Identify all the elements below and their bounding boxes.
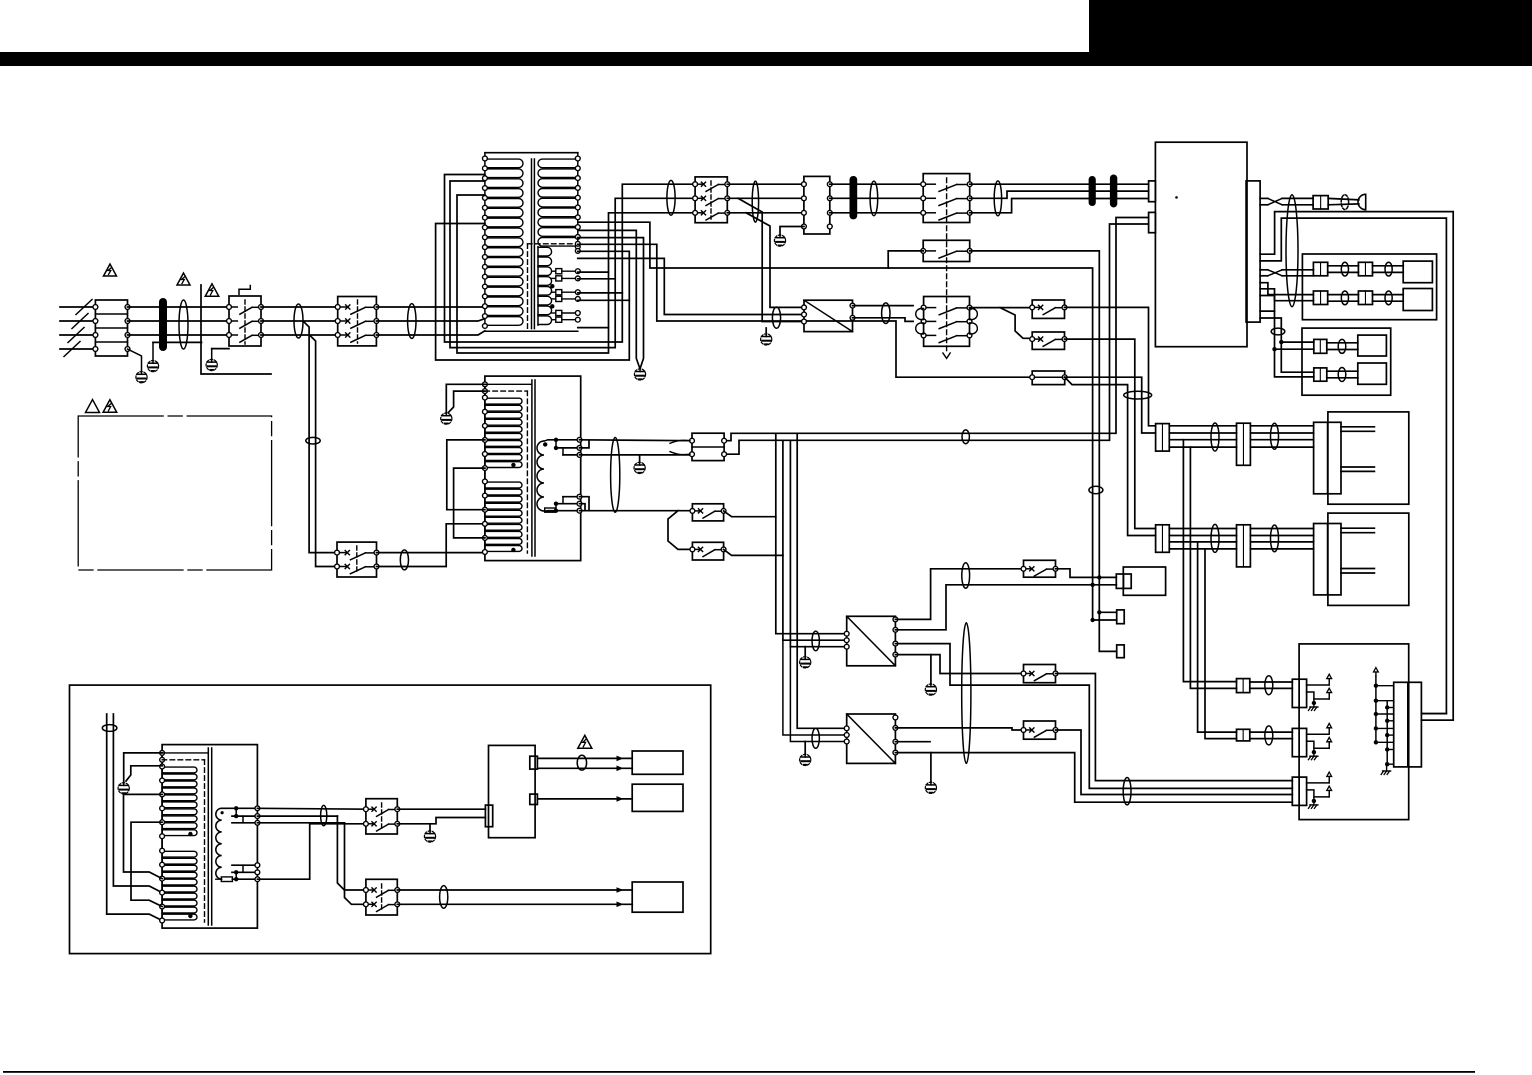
wire loop U1 <box>445 175 696 343</box>
wire L2 to ferrite <box>128 320 230 322</box>
wire branch to standby B <box>310 335 338 567</box>
relay S2 <box>335 297 378 346</box>
module plug P1 <box>1403 261 1432 283</box>
wire T2 sec top1 <box>544 440 580 441</box>
inset box <box>70 685 711 954</box>
polarity dot T2p2 <box>511 548 515 552</box>
wire CV1 in1 feed <box>776 433 847 633</box>
wire row2 out <box>1250 529 1313 549</box>
wire return loop inner <box>1260 218 1446 713</box>
wire fan chainA top <box>1281 341 1314 343</box>
wire row2 w2 <box>1169 535 1236 537</box>
converter CV2 <box>844 714 898 763</box>
wire J4 pair <box>1328 295 1359 302</box>
wire T1 tap e <box>578 327 609 329</box>
cable bundle marker tall <box>1286 195 1298 307</box>
relay S8 <box>690 542 726 560</box>
wire JP1 out b <box>1065 377 1156 535</box>
connector J5 <box>1358 291 1372 305</box>
relay S1 <box>227 296 264 346</box>
wire L3 to ferrite <box>128 334 230 336</box>
wire CV2 earth stub <box>804 742 806 755</box>
cable marker E31 <box>1271 525 1279 552</box>
transformer T3 box <box>162 745 257 929</box>
ground G8 <box>634 462 645 473</box>
cable marker E18 <box>882 303 890 324</box>
wire mains input L2 <box>60 320 95 322</box>
transformer T2 core <box>532 380 535 556</box>
ground G10 <box>800 754 811 765</box>
wire S4 to PCB 2 <box>970 191 1149 198</box>
wire S2 to T1 in3 <box>376 331 485 335</box>
wire inset vert pair A <box>107 714 162 921</box>
relay S6 <box>335 542 379 577</box>
wire S3 out1 <box>727 183 804 185</box>
arrow A1 <box>617 756 624 762</box>
connector J9 <box>1117 610 1125 624</box>
line filter FL1 <box>690 433 727 460</box>
transformer T2 primary winding <box>483 382 523 554</box>
wire earth stub 2 <box>128 349 142 372</box>
connector C1b <box>1237 423 1251 465</box>
M3 signal ladder B <box>1381 701 1394 775</box>
wire row1 w4 <box>1169 446 1236 448</box>
resistor R2 <box>221 877 232 882</box>
wire SW2 out1 <box>397 889 632 891</box>
wire row1 w2 <box>1169 432 1236 434</box>
wire S2 to T1 in1 <box>376 306 485 308</box>
wire T3 tap A <box>124 794 163 878</box>
connector J6 <box>1314 339 1327 353</box>
wire FL1 earth <box>639 455 641 462</box>
wire SXA out <box>1065 307 1156 425</box>
cable marker E24 <box>812 631 819 651</box>
cable marker E30 <box>1211 524 1219 552</box>
PCB edge connector <box>1246 181 1260 322</box>
wire JP1 out a <box>1065 377 1156 433</box>
wire CV0 out2 <box>853 318 914 322</box>
wire T3 sec top group <box>221 806 260 825</box>
wire loop U4 <box>436 224 630 361</box>
ground G12 <box>925 782 936 793</box>
cable marker E29 <box>1271 423 1279 449</box>
polarity dot T3b <box>188 914 192 918</box>
footer rule <box>3 1071 1475 1073</box>
connector C2b <box>1237 525 1251 567</box>
wire J2 pair <box>1328 266 1359 273</box>
wire T3 gnd a <box>124 753 162 783</box>
wire PCB tab to filter A <box>724 218 1149 441</box>
transformer T3 shield dashed <box>162 760 204 922</box>
cable marker E7 <box>994 181 1001 216</box>
wire row2 drop B <box>1205 549 1237 739</box>
wire M3 return A <box>1421 713 1446 715</box>
cable marker E20 <box>1089 486 1103 493</box>
connector J11 <box>485 805 492 827</box>
cable marker E13 <box>1385 291 1392 305</box>
terminal block TB1 <box>93 300 130 356</box>
horn connector <box>1358 194 1366 209</box>
wire SW2 out2 <box>397 903 632 905</box>
wire row1 out <box>1250 426 1313 447</box>
ground G13 <box>118 783 129 794</box>
wire inset vert pair B <box>113 714 162 893</box>
wire row1 w3 <box>1169 439 1236 441</box>
wire T2 sec join b <box>580 454 691 456</box>
wire M1 stubs <box>1341 427 1374 472</box>
wire T2 tap A <box>447 440 485 510</box>
wire T3 tap B <box>131 822 162 906</box>
polarity dot T2s <box>543 442 547 446</box>
wire CV1 gnd drop <box>930 655 932 684</box>
wire T3 gnd b <box>126 766 162 781</box>
cable marker E27 <box>1123 778 1131 805</box>
cable marker E36 <box>1265 676 1273 695</box>
wire PSU out2 <box>537 798 632 800</box>
wire T3 sec bottom group <box>216 863 260 882</box>
junction dot D3 <box>1097 575 1101 579</box>
wire CV1 out4 <box>895 655 1023 674</box>
wire T2 sec top2 <box>556 440 580 448</box>
wire earth link 1 <box>153 342 202 360</box>
ground G3 <box>206 359 217 370</box>
wire PCB to fan vertB <box>1260 318 1314 372</box>
wire CV0 out1 <box>853 305 914 307</box>
junction dot D5 <box>1097 610 1101 614</box>
cable marker E35 <box>440 886 448 909</box>
wire CV1 in3 feed <box>790 440 846 646</box>
connector J10 <box>1117 645 1125 658</box>
PCB input tab 1 <box>1149 181 1156 202</box>
cable bundle big <box>962 623 971 764</box>
wire CV1 earth stub <box>804 647 806 657</box>
cable marker E12 <box>1341 291 1348 305</box>
wire SX3 out <box>1056 730 1293 795</box>
wire loop U3 <box>457 195 695 353</box>
load box LB2 <box>632 784 683 811</box>
main PCB A1 <box>1155 142 1247 347</box>
module M1 connector <box>1314 422 1341 494</box>
wire S1 to S2 pole3 <box>261 334 338 336</box>
ground G11 <box>925 684 936 695</box>
wire SX1 out <box>1056 569 1117 578</box>
wire S6 out2 <box>377 524 485 567</box>
terminal block TB2 <box>802 176 833 234</box>
cable marker E26 <box>962 563 970 588</box>
transformer T2 secondary winding <box>537 441 544 511</box>
shield group SG2 <box>1292 723 1331 759</box>
ground G5 <box>774 235 785 246</box>
wire T1 tap d <box>578 299 630 301</box>
arrow A4 <box>617 887 624 893</box>
relay SX1 <box>1021 560 1058 577</box>
wire T3 out mid1 <box>257 815 337 817</box>
wire earth bus <box>201 285 271 374</box>
wire CV2 in2 feed <box>783 640 847 735</box>
cable marker E8 <box>962 430 969 444</box>
relay S5b <box>916 297 978 347</box>
PSU tab 2 <box>530 794 538 804</box>
wire J5 pair <box>1373 295 1404 302</box>
arrow A5 <box>617 902 624 908</box>
wire SW1 gnd stub <box>429 824 431 831</box>
wire T1 tap L2 <box>578 244 1032 377</box>
wire C4b out <box>1250 732 1293 739</box>
cable marker E2 <box>294 304 303 338</box>
ground G2 <box>136 372 147 383</box>
wire SW1 out2 <box>397 818 485 824</box>
wire CV2 out2 <box>895 728 1023 730</box>
relay SXB <box>1030 332 1067 349</box>
relay S1 actuator flag <box>239 286 250 295</box>
arrow A2 <box>617 766 624 772</box>
warning triangle 3 <box>205 284 219 296</box>
warning triangle 1 <box>104 264 117 276</box>
cable marker E23 tall <box>611 438 620 513</box>
wire CV2 out3 stub <box>895 741 930 743</box>
break mark line 1 <box>76 300 92 315</box>
wire CV2 in3 feed <box>790 647 846 742</box>
wire branch to standby A <box>303 321 337 553</box>
ground G1 <box>147 361 158 372</box>
wire T2 sec top3 <box>563 448 580 455</box>
wire branch SXB <box>1000 308 1032 339</box>
wire S3 out2 <box>727 197 804 199</box>
transformer T1 frame bottom <box>485 330 578 332</box>
relay S5 <box>921 240 972 261</box>
module M1 box <box>1328 412 1409 504</box>
wire L1 to ferrite <box>128 306 230 308</box>
connector J8 <box>1116 574 1131 588</box>
cable marker E5 <box>752 181 758 222</box>
converter CV1 <box>844 616 898 666</box>
wire row2 drop A <box>1198 542 1237 732</box>
resistor R1 <box>545 508 555 512</box>
relay SX2 <box>1021 665 1058 683</box>
rectifier CV0 <box>802 300 855 331</box>
wire SW1 out1 <box>397 808 485 810</box>
cable marker E17 <box>772 307 780 328</box>
connector J4 <box>1313 291 1327 305</box>
connector C3 <box>1237 679 1250 693</box>
wire D4 drop <box>1093 585 1117 620</box>
wire branch to rectifier B <box>746 213 804 308</box>
wire T2 sec bot2 <box>556 504 580 511</box>
wire SXB out <box>1065 339 1156 528</box>
module M2 connector <box>1314 524 1341 595</box>
module M2 box <box>1328 513 1409 605</box>
junction box BX2 <box>1302 328 1391 395</box>
wire T1 tap c <box>578 292 623 294</box>
terminals T2 secondary <box>577 437 582 513</box>
wire S1 to S2 pole1 <box>261 306 338 308</box>
ground G14 <box>424 831 435 842</box>
load box LB1 <box>632 751 683 774</box>
wire S7 out <box>724 511 776 517</box>
ferrite core FB2 <box>850 176 858 219</box>
wire row1 w1 <box>1169 425 1236 427</box>
wire J3 pair <box>1373 266 1404 273</box>
cable marker E14 <box>1271 328 1285 335</box>
shield group SG1 <box>1292 674 1331 710</box>
wire J6 pair <box>1327 343 1358 350</box>
cable marker E16 <box>1338 368 1346 382</box>
junction dot T2d <box>554 502 558 506</box>
cable marker E32 <box>102 725 117 732</box>
polarity dot T1b <box>550 304 554 308</box>
cable marker E9 <box>1341 195 1348 210</box>
wire S3 out3 <box>727 212 804 214</box>
wire CV2 in1 feed <box>797 433 847 728</box>
wire T2 sec join c <box>580 497 590 511</box>
wire branch to rectifier A <box>738 198 804 321</box>
transformer T3 secondary winding <box>216 808 222 879</box>
relay S7 <box>690 504 726 521</box>
wire row2 w3 <box>1169 541 1236 543</box>
shield group SG3 <box>1292 772 1331 808</box>
connector J3 <box>1358 262 1372 276</box>
wire T2 sec bot1 <box>544 510 580 512</box>
break mark line 2 <box>72 314 88 329</box>
transformer T1 frame top <box>485 153 578 159</box>
cable marker E28 <box>1211 423 1219 451</box>
cable marker E6 <box>870 181 878 216</box>
wire S5 left loop <box>888 251 923 268</box>
wire T2 sec bot3 <box>563 497 580 504</box>
junction box BX1 <box>1302 254 1436 320</box>
cable marker E33 <box>321 805 327 825</box>
wire S1 to S2 pole2 <box>261 320 338 322</box>
wire PSU out1b <box>537 767 632 769</box>
transformer T3 core <box>208 748 211 925</box>
wire TB2 to S4 2 <box>830 197 923 199</box>
wire T2 out top <box>580 439 693 442</box>
polarity dot T2p1 <box>511 463 515 467</box>
connector C4b <box>1237 729 1250 741</box>
wire PCB to fan vertA <box>1260 311 1314 377</box>
relay SX3 <box>1021 721 1058 739</box>
wire D3 drop <box>1099 577 1116 651</box>
wire T1 screen drain <box>578 230 644 368</box>
warning triangle 2 <box>177 273 190 285</box>
junction dot D2 <box>1272 347 1276 351</box>
wire M2 stubs <box>1341 528 1374 573</box>
polarity dot T3a <box>188 832 192 836</box>
wire mains input L1 <box>60 306 95 308</box>
wire branch SW2 in2 <box>345 823 366 905</box>
cable marker E37 <box>1265 726 1273 745</box>
ground G9 <box>800 657 811 668</box>
wire return loop outer <box>1260 212 1453 721</box>
junction dot T2b <box>554 446 558 450</box>
gang link arrow <box>943 353 950 358</box>
relay SW1 <box>364 799 400 834</box>
transformer T1 core <box>532 159 535 329</box>
ground G6 <box>761 334 772 345</box>
cable marker E22 <box>400 550 408 570</box>
wire CV1 in2 feed <box>783 440 847 640</box>
junction dot D4 <box>1090 583 1094 587</box>
wire S8 out <box>724 549 783 555</box>
junction dot D1 <box>1279 340 1283 344</box>
wire S5 right out <box>970 251 1100 578</box>
module M3 main connector <box>1394 682 1422 767</box>
connector J1 <box>1313 196 1328 209</box>
wire T3 screen a <box>162 752 208 754</box>
warning triangle 4 <box>86 400 100 413</box>
wire T2 sec join a <box>580 441 590 448</box>
junction dot D6 <box>1090 618 1094 622</box>
polarity dot T1a <box>550 284 554 288</box>
wire TB2 earth <box>780 227 804 236</box>
cable marker E3 <box>408 304 416 339</box>
relay gang dashed link <box>946 178 948 352</box>
fan plug P3 <box>1358 335 1387 356</box>
wire PCB pair2 crossover <box>1260 270 1313 276</box>
transformer T1 secondary upper winding <box>538 156 580 249</box>
fan plug P4 <box>1358 363 1387 384</box>
wire PCB tab to filter B <box>724 224 1149 454</box>
ground G7 <box>441 413 452 424</box>
wire row2 w4 <box>1169 548 1236 550</box>
wire M3 return B <box>1421 719 1453 721</box>
wire T2 out bot <box>580 511 693 550</box>
cable marker E11 <box>1385 262 1392 276</box>
PCB input tab 2 <box>1149 212 1156 232</box>
connector J2 <box>1313 262 1327 276</box>
wire T3 out bottom <box>257 824 366 879</box>
relay S4 <box>921 174 972 223</box>
thermal fuses F <box>552 269 581 323</box>
wire J7 pair <box>1327 371 1358 378</box>
cable marker E21 <box>306 437 320 444</box>
wire PCB out pair crossover <box>1260 198 1313 204</box>
wire PCB row 295 <box>1260 296 1274 312</box>
cable marker E19 <box>1124 391 1152 399</box>
wire row1 drop A <box>1183 440 1236 682</box>
wire row2 w1 <box>1169 528 1236 530</box>
wire TB2 to S4 1 <box>830 183 923 185</box>
wire earth link 3 <box>212 349 229 360</box>
wire T3 out mid2 <box>257 822 344 824</box>
cable marker E34 <box>577 755 586 770</box>
terminals T1 right lower <box>575 241 580 253</box>
wire T1 tap L3 <box>578 258 804 314</box>
wire T1 tap a <box>578 271 609 273</box>
wire S4 to PCB 1 <box>970 183 1149 185</box>
wire S2 to T1 in2 <box>376 319 485 321</box>
ground G4 <box>634 369 645 380</box>
wire PSU out1a <box>537 757 632 759</box>
transformer T1 secondary lower winding <box>538 247 552 325</box>
wire J1 pair <box>1328 198 1359 204</box>
wire S5b out1 <box>970 307 1032 309</box>
relay S3 <box>693 177 730 223</box>
ferrite core FB1 <box>159 298 167 351</box>
wire T3 out1 <box>257 807 366 810</box>
load box LB3 <box>632 882 683 912</box>
wire branch SW2 in1 <box>337 816 366 890</box>
wire CV1 out3 <box>895 644 1292 789</box>
wire FL1 funnel <box>670 440 690 454</box>
connector C1a <box>1156 424 1170 452</box>
wire CV2 gnd drop <box>930 753 932 783</box>
transformer T2 box <box>485 376 581 560</box>
break mark line 4 <box>64 342 80 357</box>
jumper link JP1 <box>1030 371 1067 385</box>
transformer T3 primary winding <box>160 751 197 923</box>
PSU module box <box>489 745 536 837</box>
